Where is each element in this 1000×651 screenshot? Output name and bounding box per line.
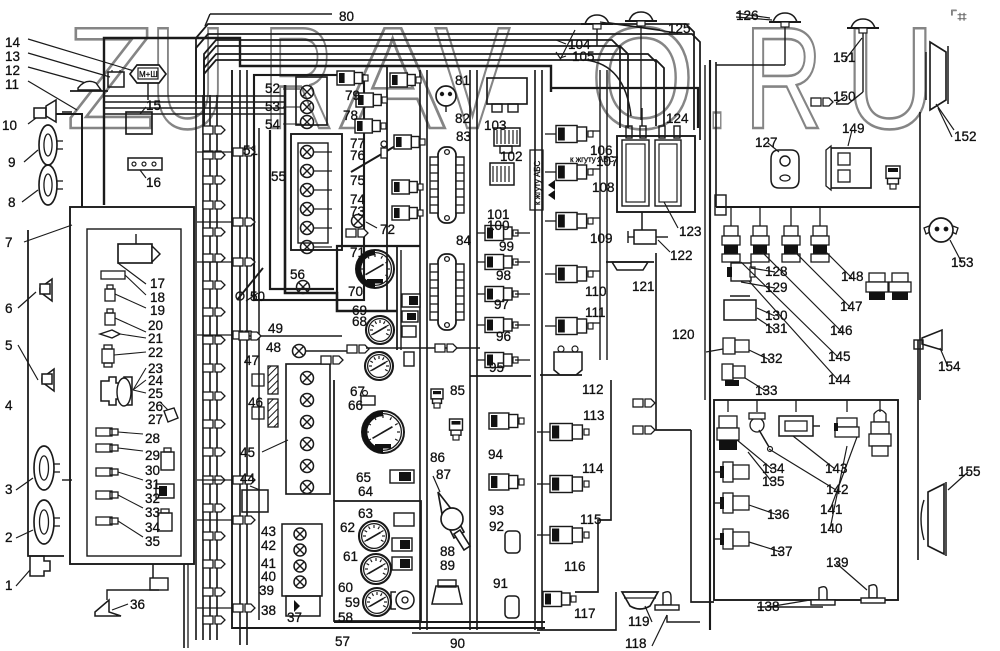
svg-text:32: 32	[145, 491, 160, 506]
svg-text:133: 133	[755, 383, 778, 398]
svg-text:60: 60	[338, 580, 353, 595]
svg-text:103: 103	[484, 118, 507, 133]
svg-text:142: 142	[826, 482, 849, 497]
svg-text:10: 10	[2, 118, 17, 133]
svg-text:28: 28	[145, 431, 160, 446]
svg-text:140: 140	[820, 521, 843, 536]
svg-text:8: 8	[8, 195, 16, 210]
svg-text:62: 62	[340, 520, 355, 535]
svg-text:40: 40	[261, 569, 276, 584]
svg-text:61: 61	[343, 549, 358, 564]
svg-text:22: 22	[148, 345, 163, 360]
svg-text:136: 136	[767, 507, 790, 522]
svg-text:52: 52	[265, 81, 280, 96]
svg-text:145: 145	[828, 349, 851, 364]
svg-text:64: 64	[358, 484, 374, 499]
svg-text:126: 126	[736, 8, 759, 23]
svg-text:34: 34	[145, 520, 161, 535]
svg-text:57: 57	[335, 634, 350, 649]
svg-text:72: 72	[380, 222, 395, 237]
svg-text:29: 29	[145, 448, 160, 463]
svg-text:77: 77	[350, 136, 365, 151]
svg-text:101: 101	[487, 207, 510, 222]
svg-text:115: 115	[580, 512, 602, 527]
svg-text:120: 120	[672, 327, 695, 342]
svg-text:114: 114	[582, 461, 604, 476]
svg-text:84: 84	[456, 233, 472, 248]
svg-text:99: 99	[499, 239, 514, 254]
svg-text:48: 48	[266, 340, 281, 355]
svg-text:6: 6	[5, 301, 13, 316]
svg-text:80: 80	[339, 9, 354, 24]
svg-text:27: 27	[148, 412, 163, 427]
svg-text:128: 128	[765, 264, 788, 279]
svg-text:17: 17	[150, 276, 165, 291]
svg-text:67: 67	[350, 384, 365, 399]
svg-text:к жгуту АБС: к жгуту АБС	[533, 161, 542, 205]
svg-text:M+Ш: M+Ш	[139, 70, 158, 79]
svg-text:143: 143	[825, 461, 848, 476]
svg-text:150: 150	[833, 89, 856, 104]
svg-text:66: 66	[348, 398, 363, 413]
svg-text:109: 109	[590, 231, 613, 246]
svg-text:1: 1	[5, 578, 13, 593]
svg-text:46: 46	[248, 395, 263, 410]
svg-text:98: 98	[496, 268, 511, 283]
svg-text:90: 90	[450, 636, 465, 651]
svg-text:53: 53	[265, 99, 280, 114]
svg-text:94: 94	[488, 447, 504, 462]
svg-text:7: 7	[5, 235, 13, 250]
svg-text:71: 71	[350, 245, 365, 260]
svg-text:69: 69	[352, 303, 367, 318]
svg-text:47: 47	[244, 353, 259, 368]
svg-text:21: 21	[148, 331, 163, 346]
svg-text:92: 92	[489, 519, 504, 534]
svg-text:74: 74	[350, 192, 366, 207]
svg-text:102: 102	[500, 149, 523, 164]
svg-text:50: 50	[250, 289, 265, 304]
svg-text:82: 82	[455, 111, 470, 126]
svg-text:122: 122	[670, 248, 693, 263]
svg-text:107: 107	[596, 154, 619, 169]
svg-text:111: 111	[585, 305, 606, 320]
svg-text:91: 91	[493, 576, 508, 591]
svg-text:33: 33	[145, 505, 160, 520]
svg-text:129: 129	[765, 280, 788, 295]
svg-text:43: 43	[261, 524, 276, 539]
svg-text:56: 56	[290, 267, 305, 282]
svg-text:119: 119	[628, 614, 650, 629]
svg-text:55: 55	[271, 169, 286, 184]
svg-text:125: 125	[668, 21, 691, 36]
svg-text:12: 12	[5, 63, 20, 78]
svg-text:36: 36	[130, 597, 145, 612]
svg-text:141: 141	[820, 502, 843, 517]
svg-text:144: 144	[828, 372, 851, 387]
svg-text:132: 132	[760, 351, 783, 366]
svg-text:75: 75	[350, 173, 365, 188]
svg-text:96: 96	[496, 329, 511, 344]
svg-text:83: 83	[456, 129, 471, 144]
svg-text:2: 2	[5, 530, 13, 545]
svg-text:41: 41	[261, 556, 276, 571]
svg-text:154: 154	[938, 359, 961, 374]
svg-text:153: 153	[951, 255, 974, 270]
svg-text:63: 63	[358, 506, 373, 521]
svg-text:⌜⌗: ⌜⌗	[950, 9, 967, 26]
svg-text:5: 5	[5, 338, 13, 353]
svg-text:97: 97	[494, 297, 509, 312]
svg-text:58: 58	[338, 610, 353, 625]
svg-text:110: 110	[585, 284, 607, 299]
svg-text:35: 35	[145, 534, 160, 549]
svg-text:39: 39	[259, 583, 274, 598]
svg-text:146: 146	[830, 323, 853, 338]
svg-text:4: 4	[5, 398, 13, 413]
svg-text:87: 87	[436, 467, 451, 482]
svg-text:135: 135	[762, 474, 785, 489]
svg-text:116: 116	[564, 559, 586, 574]
svg-text:81: 81	[455, 73, 470, 88]
svg-text:151: 151	[833, 50, 856, 65]
svg-text:65: 65	[356, 470, 371, 485]
svg-text:121: 121	[632, 279, 655, 294]
svg-text:14: 14	[5, 35, 21, 50]
svg-text:3: 3	[5, 482, 13, 497]
svg-text:42: 42	[261, 538, 276, 553]
svg-text:148: 148	[841, 269, 864, 284]
svg-text:70: 70	[348, 284, 363, 299]
svg-text:137: 137	[770, 544, 793, 559]
svg-text:79: 79	[345, 88, 360, 103]
svg-text:152: 152	[954, 129, 977, 144]
svg-text:118: 118	[625, 636, 647, 651]
svg-text:131: 131	[765, 321, 788, 336]
svg-text:37: 37	[287, 610, 302, 625]
svg-text:54: 54	[265, 117, 281, 132]
svg-text:138: 138	[757, 599, 780, 614]
svg-text:11: 11	[5, 77, 19, 92]
svg-text:78: 78	[343, 108, 358, 123]
svg-text:108: 108	[592, 180, 615, 195]
svg-text:127: 127	[755, 135, 778, 150]
svg-text:9: 9	[8, 155, 16, 170]
svg-text:38: 38	[261, 603, 276, 618]
svg-text:15: 15	[146, 98, 161, 113]
svg-text:123: 123	[679, 224, 702, 239]
svg-text:86: 86	[430, 450, 445, 465]
svg-text:13: 13	[5, 49, 20, 64]
svg-text:44: 44	[240, 471, 256, 486]
svg-text:89: 89	[440, 558, 455, 573]
svg-text:19: 19	[150, 303, 165, 318]
svg-text:59: 59	[345, 595, 360, 610]
svg-text:112: 112	[582, 382, 604, 397]
svg-text:51: 51	[243, 143, 258, 158]
svg-text:147: 147	[840, 299, 863, 314]
svg-text:149: 149	[842, 121, 865, 136]
svg-text:85: 85	[450, 383, 465, 398]
svg-text:93: 93	[489, 503, 504, 518]
svg-text:113: 113	[583, 408, 605, 423]
svg-text:31: 31	[145, 477, 160, 492]
svg-text:49: 49	[268, 321, 283, 336]
svg-text:105: 105	[572, 49, 595, 64]
svg-text:30: 30	[145, 463, 160, 478]
svg-text:88: 88	[440, 544, 455, 559]
svg-text:117: 117	[574, 606, 596, 621]
svg-text:124: 124	[666, 111, 689, 126]
svg-text:95: 95	[489, 360, 504, 375]
svg-text:139: 139	[826, 555, 849, 570]
svg-text:155: 155	[958, 464, 981, 479]
svg-text:16: 16	[146, 175, 161, 190]
svg-text:45: 45	[240, 445, 255, 460]
